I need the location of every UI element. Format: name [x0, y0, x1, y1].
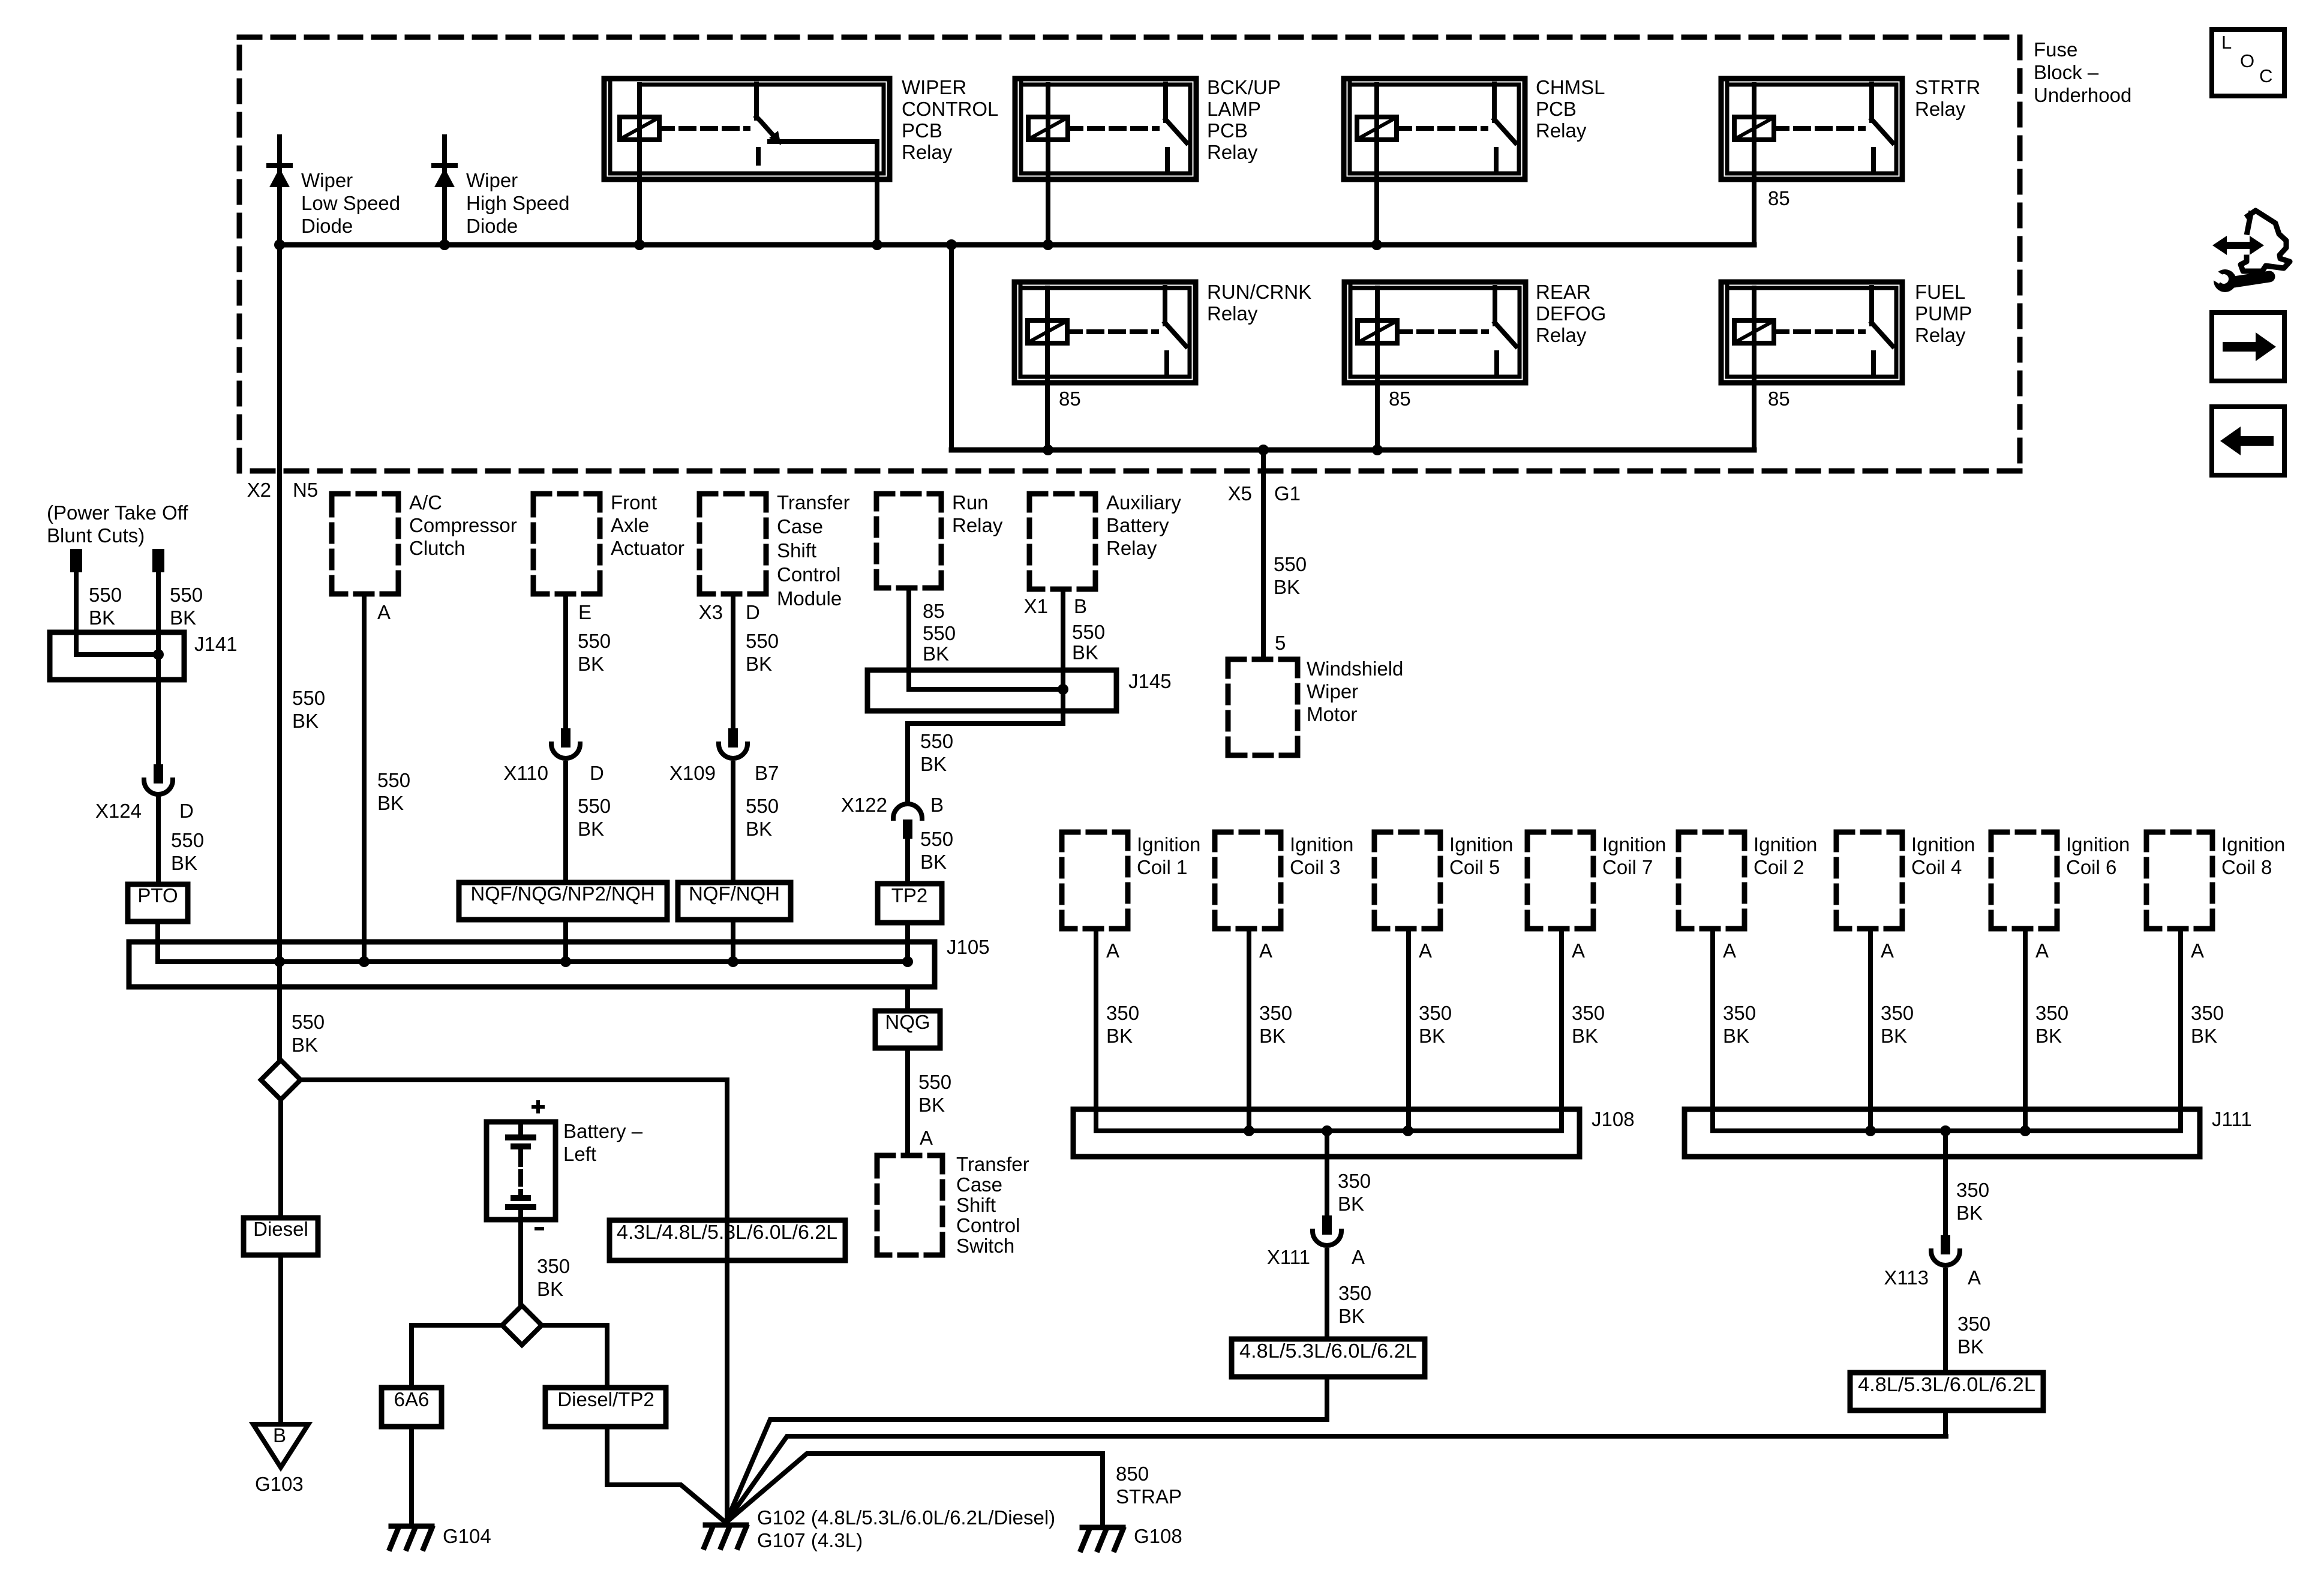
svg-text:550: 550 [923, 622, 956, 644]
svg-text:Relay: Relay [952, 514, 1003, 536]
svg-text:A/C: A/C [409, 491, 442, 514]
svg-text:Relay: Relay [1207, 141, 1258, 163]
svg-text:Ignition: Ignition [1137, 833, 1200, 855]
svg-text:550: 550 [920, 730, 953, 752]
svg-text:Diesel/TP2: Diesel/TP2 [557, 1388, 654, 1410]
svg-text:850: 850 [1116, 1463, 1149, 1485]
svg-text:A: A [1572, 939, 1585, 962]
svg-text:X113: X113 [1884, 1266, 1929, 1289]
svg-text:PCB: PCB [1207, 119, 1248, 142]
svg-text:85: 85 [923, 600, 945, 622]
svg-text:BK: BK [920, 851, 947, 873]
svg-text:550: 550 [578, 630, 611, 652]
svg-text:550: 550 [292, 687, 325, 709]
svg-text:X1: X1 [1024, 595, 1048, 617]
svg-text:D: D [746, 601, 760, 623]
svg-text:Control: Control [956, 1214, 1020, 1236]
svg-text:550: 550 [920, 828, 953, 850]
svg-text:Ignition: Ignition [1753, 833, 1817, 855]
svg-text:STRAP: STRAP [1116, 1485, 1182, 1508]
svg-text:A: A [1723, 939, 1736, 962]
svg-text:BK: BK [1956, 1202, 1983, 1224]
svg-text:5: 5 [1275, 632, 1286, 654]
svg-text:Ignition: Ignition [2221, 833, 2285, 855]
svg-text:TP2: TP2 [891, 884, 928, 906]
svg-text:B7: B7 [755, 762, 779, 784]
svg-text:Case: Case [956, 1173, 1002, 1196]
svg-text:J141: J141 [194, 633, 238, 655]
svg-text:N5: N5 [293, 479, 318, 501]
svg-text:A: A [920, 1127, 933, 1149]
svg-text:Coil 3: Coil 3 [1290, 856, 1340, 878]
svg-text:Ignition: Ignition [1290, 833, 1353, 855]
svg-text:Case: Case [777, 515, 823, 538]
svg-text:STRTR: STRTR [1915, 76, 1980, 98]
svg-text:REAR: REAR [1536, 281, 1591, 303]
svg-text:Coil 2: Coil 2 [1753, 856, 1804, 878]
svg-text:NQF/NQG/NP2/NQH: NQF/NQG/NP2/NQH [471, 882, 655, 905]
svg-text:NQF/NQH: NQF/NQH [689, 882, 780, 905]
svg-text:Axle: Axle [611, 514, 649, 536]
svg-text:A: A [377, 601, 391, 623]
svg-text:(Power Take Off: (Power Take Off [47, 502, 188, 524]
svg-text:BK: BK [1072, 641, 1098, 664]
svg-text:350: 350 [537, 1255, 570, 1277]
svg-text:350: 350 [1419, 1002, 1452, 1024]
svg-text:B: B [930, 794, 944, 816]
svg-text:85: 85 [1389, 388, 1411, 410]
svg-text:Shift: Shift [777, 539, 816, 562]
svg-text:Coil 5: Coil 5 [1449, 856, 1500, 878]
svg-text:4.8L/5.3L/6.0L/6.2L: 4.8L/5.3L/6.0L/6.2L [1239, 1340, 1417, 1362]
svg-text:BK: BK [1338, 1305, 1365, 1327]
svg-text:Relay: Relay [902, 141, 953, 163]
svg-text:Compressor: Compressor [409, 514, 517, 536]
svg-text:Left: Left [563, 1143, 596, 1165]
svg-text:A: A [1106, 939, 1119, 962]
svg-text:550: 550 [292, 1011, 325, 1033]
svg-text:Ignition: Ignition [1911, 833, 1975, 855]
svg-text:BK: BK [918, 1094, 945, 1116]
svg-text:350: 350 [1572, 1002, 1605, 1024]
svg-text:350: 350 [1956, 1179, 1989, 1201]
svg-text:4.3L/4.8L/5.3L/6.0L/6.2L: 4.3L/4.8L/5.3L/6.0L/6.2L [617, 1221, 837, 1243]
svg-text:Module: Module [777, 587, 842, 610]
svg-text:Relay: Relay [1915, 98, 1966, 120]
svg-text:Diode: Diode [466, 215, 518, 237]
svg-text:85: 85 [1059, 388, 1081, 410]
svg-text:350: 350 [1106, 1002, 1139, 1024]
svg-text:BK: BK [171, 852, 197, 874]
svg-text:BK: BK [537, 1278, 563, 1300]
svg-text:G104: G104 [443, 1525, 491, 1547]
svg-text:Wiper: Wiper [301, 169, 353, 191]
svg-text:A: A [2035, 939, 2049, 962]
svg-text:BK: BK [1572, 1025, 1598, 1047]
svg-text:PUMP: PUMP [1915, 302, 1972, 325]
svg-text:WIPER: WIPER [902, 76, 966, 98]
svg-text:BK: BK [1957, 1335, 1984, 1358]
svg-text:PCB: PCB [1536, 98, 1577, 120]
svg-text:A: A [1259, 939, 1272, 962]
svg-text:NQG: NQG [885, 1011, 930, 1033]
svg-text:550: 550 [578, 795, 611, 817]
svg-text:A: A [1419, 939, 1432, 962]
svg-text:Shift: Shift [956, 1194, 996, 1216]
svg-text:350: 350 [2035, 1002, 2068, 1024]
svg-text:Coil 8: Coil 8 [2221, 856, 2272, 878]
svg-text:350: 350 [1338, 1282, 1371, 1304]
svg-text:BK: BK [292, 1034, 318, 1056]
svg-text:G102 (4.8L/5.3L/6.0L/6.2L/Dies: G102 (4.8L/5.3L/6.0L/6.2L/Diesel) [757, 1506, 1055, 1529]
svg-text:4.8L/5.3L/6.0L/6.2L: 4.8L/5.3L/6.0L/6.2L [1858, 1373, 2035, 1395]
svg-text:6A6: 6A6 [394, 1388, 430, 1410]
svg-text:BK: BK [292, 710, 319, 732]
svg-text:Fuse: Fuse [2034, 38, 2077, 61]
svg-text:Block –: Block – [2034, 61, 2099, 83]
svg-text:O: O [2240, 50, 2254, 71]
svg-text:Ignition: Ignition [1449, 833, 1513, 855]
svg-text:Coil 4: Coil 4 [1911, 856, 1962, 878]
svg-text:X5: X5 [1228, 482, 1252, 505]
svg-text:G1: G1 [1274, 482, 1301, 505]
svg-text:X109: X109 [669, 762, 716, 784]
svg-text:BK: BK [1274, 576, 1300, 598]
svg-text:Control: Control [777, 563, 840, 586]
svg-text:350: 350 [1338, 1170, 1371, 1192]
svg-text:550: 550 [170, 584, 203, 606]
svg-text:E: E [578, 601, 591, 623]
svg-text:Transfer: Transfer [956, 1153, 1029, 1175]
svg-text:350: 350 [1957, 1313, 1990, 1335]
svg-text:A: A [2191, 939, 2204, 962]
svg-text:550: 550 [746, 795, 779, 817]
svg-text:FUEL: FUEL [1915, 281, 1965, 303]
svg-text:550: 550 [918, 1071, 951, 1093]
svg-text:A: A [1352, 1246, 1365, 1268]
svg-text:Coil 7: Coil 7 [1602, 856, 1653, 878]
svg-text:550: 550 [1072, 621, 1105, 643]
svg-text:Diesel: Diesel [253, 1218, 308, 1240]
svg-text:550: 550 [171, 829, 204, 851]
svg-text:BK: BK [2191, 1025, 2217, 1047]
svg-text:Diode: Diode [301, 215, 353, 237]
svg-text:X111: X111 [1267, 1246, 1310, 1268]
svg-text:D: D [590, 762, 604, 784]
svg-text:350: 350 [1881, 1002, 1914, 1024]
svg-text:BK: BK [1259, 1025, 1286, 1047]
svg-text:G108: G108 [1134, 1525, 1182, 1547]
svg-text:L: L [2221, 32, 2232, 53]
svg-text:BCK/UP: BCK/UP [1207, 76, 1281, 98]
svg-text:550: 550 [89, 584, 122, 606]
svg-text:BK: BK [1419, 1025, 1445, 1047]
svg-text:LAMP: LAMP [1207, 98, 1261, 120]
svg-text:85: 85 [1768, 388, 1790, 410]
svg-text:A: A [1968, 1266, 1981, 1289]
svg-text:B: B [1074, 595, 1087, 617]
svg-text:BK: BK [746, 653, 772, 675]
svg-text:Relay: Relay [1536, 119, 1587, 142]
svg-text:Wiper: Wiper [466, 169, 518, 191]
svg-text:D: D [179, 800, 194, 822]
svg-text:A: A [1881, 939, 1894, 962]
svg-text:550: 550 [1274, 553, 1307, 575]
svg-text:BK: BK [2035, 1025, 2062, 1047]
svg-text:BK: BK [1723, 1025, 1749, 1047]
svg-text:Ignition: Ignition [2066, 833, 2130, 855]
svg-text:BK: BK [578, 818, 604, 840]
svg-text:G107 (4.3L): G107 (4.3L) [757, 1529, 863, 1551]
svg-text:DEFOG: DEFOG [1536, 302, 1606, 325]
svg-text:BK: BK [578, 653, 604, 675]
svg-text:X122: X122 [841, 794, 887, 816]
svg-text:PCB: PCB [902, 119, 942, 142]
svg-text:350: 350 [2191, 1002, 2224, 1024]
svg-text:Battery –: Battery – [563, 1120, 643, 1142]
svg-text:Relay: Relay [1207, 302, 1258, 325]
svg-text:C: C [2259, 65, 2272, 86]
svg-text:X124: X124 [95, 800, 142, 822]
svg-text:550: 550 [377, 769, 410, 791]
svg-text:Motor: Motor [1307, 703, 1357, 725]
svg-text:Relay: Relay [1536, 324, 1587, 346]
svg-text:Relay: Relay [1106, 537, 1157, 559]
svg-text:BK: BK [746, 818, 772, 840]
svg-text:BK: BK [377, 792, 404, 814]
svg-text:BK: BK [1106, 1025, 1133, 1047]
svg-text:Ignition: Ignition [1602, 833, 1666, 855]
svg-text:Blunt Cuts): Blunt Cuts) [47, 524, 145, 547]
svg-text:BK: BK [89, 607, 115, 629]
svg-text:Relay: Relay [1915, 324, 1966, 346]
svg-text:Wiper: Wiper [1307, 680, 1358, 703]
svg-text:Auxiliary: Auxiliary [1106, 491, 1181, 514]
svg-text:B: B [273, 1424, 286, 1446]
svg-text:Coil 6: Coil 6 [2066, 856, 2116, 878]
svg-text:High Speed: High Speed [466, 192, 569, 214]
svg-text:J145: J145 [1128, 670, 1172, 692]
svg-text:J111: J111 [2212, 1108, 2252, 1130]
svg-text:Actuator: Actuator [611, 537, 684, 559]
svg-text:BK: BK [170, 607, 196, 629]
svg-text:350: 350 [1259, 1002, 1292, 1024]
svg-text:CHMSL: CHMSL [1536, 76, 1605, 98]
svg-text:Run: Run [952, 491, 989, 514]
svg-text:350: 350 [1723, 1002, 1756, 1024]
svg-text:G103: G103 [255, 1473, 304, 1495]
svg-text:BK: BK [923, 643, 949, 665]
svg-text:Coil 1: Coil 1 [1137, 856, 1187, 878]
svg-text:BK: BK [920, 753, 947, 775]
svg-text:RUN/CRNK: RUN/CRNK [1207, 281, 1311, 303]
svg-text:Battery: Battery [1106, 514, 1169, 536]
svg-text:Front: Front [611, 491, 657, 514]
svg-text:Switch: Switch [956, 1235, 1014, 1257]
svg-text:Transfer: Transfer [777, 491, 850, 514]
svg-text:550: 550 [746, 630, 779, 652]
svg-text:BK: BK [1338, 1193, 1364, 1215]
svg-text:CONTROL: CONTROL [902, 98, 998, 120]
svg-text:X2: X2 [247, 479, 271, 501]
svg-text:85: 85 [1768, 187, 1790, 209]
svg-text:J108: J108 [1592, 1108, 1635, 1130]
svg-text:J105: J105 [947, 936, 990, 958]
svg-text:X3: X3 [699, 601, 723, 623]
svg-text:Clutch: Clutch [409, 537, 466, 559]
svg-text:Underhood: Underhood [2034, 84, 2131, 106]
svg-text:PTO: PTO [137, 884, 178, 906]
svg-text:BK: BK [1881, 1025, 1907, 1047]
svg-text:Low Speed: Low Speed [301, 192, 400, 214]
svg-text:Windshield: Windshield [1307, 658, 1403, 680]
svg-text:X110: X110 [503, 762, 548, 784]
